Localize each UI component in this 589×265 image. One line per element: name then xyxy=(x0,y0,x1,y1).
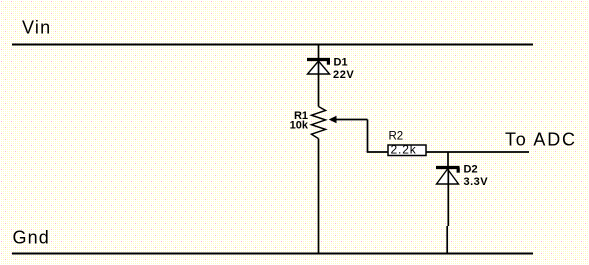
svg-text:Gnd: Gnd xyxy=(13,228,50,248)
wire: D2 anode down xyxy=(447,169,449,226)
svg-text:D2: D2 xyxy=(464,164,478,176)
diode D1 (zener, cathode up) xyxy=(307,60,330,75)
wire: wiper vertical segment down xyxy=(367,120,369,153)
wire: junction down to D2 cathode xyxy=(447,152,449,166)
svg-text:Vin: Vin xyxy=(22,18,51,38)
svg-text:10k: 10k xyxy=(290,119,309,131)
svg-text:D1: D1 xyxy=(334,57,348,69)
resistor R2 (box style) xyxy=(388,145,426,156)
wire: R1 bottom to Gnd rail xyxy=(318,139,320,254)
wire: jog segment to Gnd rail xyxy=(446,226,448,254)
svg-text:3.3V: 3.3V xyxy=(464,176,489,188)
wire: Vin rail to D1 cathode xyxy=(318,44,320,58)
wire: into R2 left pin xyxy=(367,151,388,153)
net Gnd rail wire xyxy=(12,253,533,255)
wire: D1 anode through to R1 top xyxy=(318,58,320,107)
net Vin rail wire xyxy=(12,44,533,46)
svg-text:To ADC: To ADC xyxy=(505,130,577,150)
svg-text:R2: R2 xyxy=(389,131,404,143)
resistor R1 zigzag xyxy=(312,107,326,139)
svg-text:22V: 22V xyxy=(333,69,354,81)
svg-text:2.2k: 2.2k xyxy=(391,143,417,157)
diode D2 (zener, cathode up) xyxy=(436,168,460,185)
wire: R2 right pin to ADC net xyxy=(426,151,529,153)
potentiometer wiper arrow xyxy=(329,116,337,123)
wire: wiper horizontal segment xyxy=(336,119,368,121)
